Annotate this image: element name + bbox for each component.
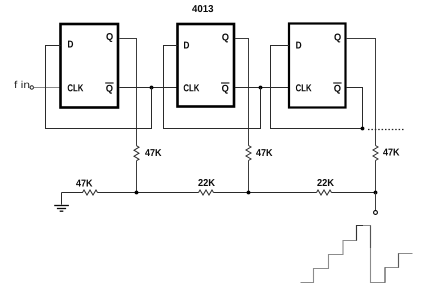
junction U3 feedback xyxy=(361,127,365,131)
ground xyxy=(61,193,63,205)
output terminal circle xyxy=(374,211,378,215)
resistor R3 47K vertical xyxy=(373,146,378,161)
wire U1 Q to R1 xyxy=(120,39,137,146)
label 4013 xyxy=(192,5,213,12)
junction node B xyxy=(247,191,251,195)
wire U2 Qbar to U3 CLK xyxy=(235,87,289,89)
resistor R2 47K vertical xyxy=(246,146,251,161)
wire U1 feedback Qbar to D xyxy=(46,46,152,129)
junction node A xyxy=(135,191,139,195)
junction node C output xyxy=(374,191,378,195)
R6 value 22K xyxy=(317,179,334,186)
input terminal circle xyxy=(30,86,33,89)
U1 pin D xyxy=(68,41,73,48)
flip-flop U3 xyxy=(289,24,346,108)
R3 value 47K xyxy=(383,149,399,156)
wire U2 Q to R2 xyxy=(235,39,249,146)
wire U3 feedback Qbar to D xyxy=(271,46,363,129)
U2 pin D xyxy=(184,42,189,49)
resistor R6 22K xyxy=(317,190,332,195)
wire R3 to node C xyxy=(375,161,377,193)
junction U1 Qbar feedback xyxy=(150,86,154,90)
U2 pin CLK xyxy=(184,84,200,91)
U2 pin Qbar xyxy=(222,85,228,94)
U1 pin CLK xyxy=(68,84,84,91)
wire U1 Qbar to U2 CLK xyxy=(120,87,177,89)
wire f in to U1 CLK xyxy=(34,87,60,89)
flip-flop U1 xyxy=(61,24,119,108)
U1 pin Q xyxy=(106,33,112,42)
staircase output waveform xyxy=(301,226,413,283)
resistor R1 47K vertical xyxy=(134,146,139,161)
R5 value 22K xyxy=(198,179,215,186)
R2 value 47K xyxy=(256,149,272,156)
wire node B ladder xyxy=(214,192,317,194)
U3 pin Qbar xyxy=(334,85,340,94)
resistor R4 47K to ground xyxy=(62,190,98,195)
resistor R5 22K xyxy=(199,190,214,195)
wire R1 to node A xyxy=(136,161,138,193)
U2 pin Q xyxy=(222,34,228,43)
U3 pin D xyxy=(296,42,301,49)
wire node A ladder xyxy=(98,192,199,194)
U3 pin Q xyxy=(334,34,340,43)
flip-flop U2 xyxy=(178,24,235,107)
wire to output terminal xyxy=(375,193,377,211)
wire U3 Q to R3 xyxy=(346,39,376,146)
wire U2 feedback Qbar to D xyxy=(164,46,261,129)
R4 value 47K xyxy=(76,180,92,187)
dotted continuation wire xyxy=(368,129,404,131)
U1 pin Qbar xyxy=(106,85,112,94)
wire R2 to node B xyxy=(248,161,250,193)
wire R6 to node C xyxy=(332,192,376,194)
node f in xyxy=(14,81,29,88)
junction U2 Qbar feedback xyxy=(259,86,263,90)
staircase dark accents xyxy=(357,226,364,241)
U3 pin CLK xyxy=(296,84,312,91)
R1 value 47K xyxy=(145,149,161,156)
